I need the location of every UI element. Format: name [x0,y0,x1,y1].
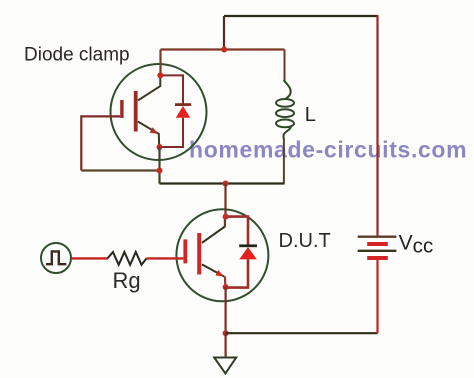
pulse source V2 circle [41,243,71,273]
battery V1 short thick plate 1 [367,242,388,246]
diode D1 bottom lead [160,118,184,147]
transistor Q2 emitter arrowhead [215,270,223,276]
transistor Q1 gate bar [134,91,138,132]
transistor Q1 emitter diagonal [138,122,159,148]
wire horizontal upper [161,48,285,50]
transistor Q2 gate lead bar [183,239,187,263]
pulse source waveform glyph [46,251,66,264]
wire gate return bottom [81,169,159,171]
inductor L coil [276,80,294,139]
diode D1 cathode bar [175,103,191,106]
battery V1 plate top long [358,235,397,237]
node Q2 collector dot [223,214,229,220]
diode D1 top lead [161,75,184,103]
wire Q2 emitter down to ground junction [225,287,227,333]
circle of clamp transistor Q1 [111,64,207,160]
svg-text:homemade-circuits.com: homemade-circuits.com [189,137,467,163]
circle of transistor Q2 DUT [176,209,268,301]
diode D1 triangle [176,106,190,118]
transistor Q1 collector diagonal [138,75,160,100]
transistor Q1 gate lead bar [120,100,123,118]
wire resistor to Q2 gate [147,257,184,259]
wire bottom of clamp loop [160,182,285,184]
wire clamp collector drop [159,50,161,76]
node Q2 emitter dot [223,284,229,290]
wire Q1 emitter down [158,147,160,184]
inductor L bottom lead [283,138,285,184]
transistor Q2 collector diagonal [202,227,225,243]
svg-text:Vcc: Vcc [399,232,434,258]
node A junction dot [221,47,227,53]
inductor L top lead [284,50,286,82]
battery V1 short thick plate 2 [367,256,388,260]
wire Q2 emitter stub [224,276,227,287]
wire ground junction to battery negative [226,332,378,334]
svg-text:D.U.T: D.U.T [279,230,331,252]
svg-text:Rg: Rg [113,268,141,293]
node ground junction dot [223,330,229,336]
ground symbol [214,358,236,374]
diode D2 top lead [226,217,248,245]
node gate-return junction dot [157,168,163,174]
transistor Q2 emitter diagonal [202,264,224,276]
node bottom-loop junction dot [223,181,229,187]
svg-text:Diode clamp: Diode clamp [24,45,130,66]
svg-text:L: L [305,104,316,126]
wire stub from top rail to node A [223,16,225,50]
wire ground stub [225,333,227,356]
wire top rail [224,15,378,17]
diode D2 cathode bar [239,244,257,247]
transistor Q1 emitter arrowhead [150,127,158,134]
diode D2 triangle [239,247,257,259]
node Q1 emitter dot [157,144,163,150]
wire Q2 collector stub [224,217,226,227]
diode D2 bottom lead [226,259,248,287]
wire Q1 gate to emitter (short) [81,116,120,170]
resistor Rg zigzag [108,252,147,265]
wire battery negative lead down [376,260,378,333]
wire right rail to battery [376,15,378,236]
wire junction down to DUT collector [224,184,226,217]
wire pulse source to resistor [71,257,108,259]
node Q1 collector dot [157,72,163,78]
battery V1 plate long 2 [358,250,397,252]
transistor Q2 gate bar [197,233,201,275]
